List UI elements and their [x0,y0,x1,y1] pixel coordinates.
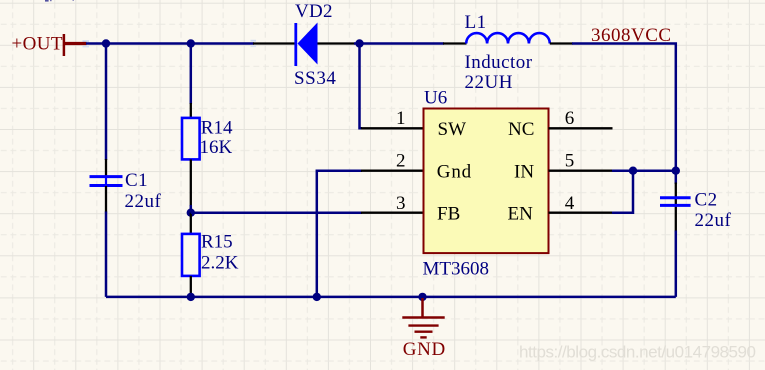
pin number 4 [565,193,575,214]
node junction left rail / top wire [102,39,110,47]
wire: R14 bottom pin [190,159,192,206]
pin number 1 [396,108,406,129]
node junction EN/IN [629,167,637,175]
wire: diode left pin [253,42,295,44]
wire: pin 2 Gnd [361,170,423,172]
node junction IN/right rail [672,167,680,175]
wire: C2 top pin [675,183,677,232]
pin name Gnd [437,161,472,182]
svg-text:16K: 16K [200,137,233,158]
wire: R14 top pin [190,103,192,118]
pin name IN [514,161,534,182]
svg-text:22uf: 22uf [125,191,162,212]
wire: C1 bottom pin [105,186,107,213]
resistor R15 2.2K [182,232,239,276]
svg-text:2: 2 [396,151,406,172]
wire: C1 top pin [105,159,107,176]
node junction Gnd / bottom rail [313,293,321,301]
node junction at SW column on top wire [355,39,363,47]
svg-text:C2: C2 [695,190,718,211]
svg-text:L1: L1 [465,12,487,33]
wire: bottom rail [106,296,676,299]
svg-text:GND: GND [403,339,446,360]
pin name SW [438,119,467,140]
wire: FB net (pin3 to divider) [191,211,362,214]
svg-text:MT3608: MT3608 [423,259,490,280]
svg-text:R15: R15 [201,232,233,253]
svg-text:4: 4 [565,193,575,214]
wire: pin 3 FB [361,212,423,214]
svg-text:SS34: SS34 [294,68,337,89]
pin number 6 [565,108,575,129]
wire: R15 top pin [190,213,192,234]
svg-text:5: 5 [565,151,575,172]
resistor R14 16K [182,118,233,160]
wire: diode right pin [318,42,356,44]
svg-text:SW: SW [438,119,467,140]
svg-text:FB: FB [437,204,460,225]
pin number 5 [565,151,575,172]
node junction R column / top wire [187,39,195,47]
IC U6 MT3608 body [423,88,549,280]
wire: left rail lower [105,212,108,297]
svg-text:Gnd: Gnd [437,161,472,182]
svg-text:NC: NC [508,119,534,140]
svg-text:VD2: VD2 [295,1,333,22]
svg-text:2.2K: 2.2K [201,253,239,274]
wire: IN net to right rail [612,169,676,172]
svg-text:EN: EN [508,204,534,225]
svg-text:Inductor: Inductor [465,52,533,73]
wire: diode to inductor [354,42,444,45]
wire top: port to diode [86,42,254,45]
pin number 2 [396,151,406,172]
wire: pin 5 IN [549,170,613,172]
inductor L1 22UH [465,12,550,93]
wire: inductor right pin [550,42,573,44]
svg-text:U6: U6 [424,88,447,109]
svg-text:+OUT: +OUT [12,34,63,55]
pin name FB [437,204,460,225]
capacitor C2 22uf [660,190,732,232]
pin name NC [508,119,534,140]
svg-text:3: 3 [396,193,406,214]
svg-text:1: 1 [396,108,406,129]
net label 3608VCC [591,25,672,46]
node junction FB / divider [187,209,195,217]
pin number 3 [396,193,406,214]
watermark [519,343,756,362]
diode VD2 SS34 [294,1,337,89]
wire: pin 6 NC [549,127,613,129]
svg-text:22UH: 22UH [465,72,513,93]
capacitor C1 22uf [90,170,162,212]
node junction GND / bottom rail [418,293,426,301]
svg-text:R14: R14 [201,118,233,139]
wire: pin 4 EN [549,212,613,214]
wire: left rail upper [105,44,108,161]
wire: R column upper [190,44,193,105]
svg-text:22uf: 22uf [695,210,732,231]
selection artifact dashes [83,40,257,48]
pin name EN [508,204,534,225]
wire: EN net up to IN [612,171,633,213]
svg-text:6: 6 [565,108,575,129]
ground GND symbol [402,298,445,360]
svg-text:https://blog.csdn.net/u0147985: https://blog.csdn.net/u014798590 [519,343,756,362]
wire: top right to right rail [572,44,676,185]
wire: pin 1 SW [361,127,423,129]
node junction R15 / bottom rail [187,293,195,301]
svg-text:IN: IN [514,161,534,182]
wire: Gnd net vertical [317,171,362,297]
wire: right rail lower [675,231,678,297]
wire: R column mid [190,205,193,214]
wire: R15 bottom pin [190,276,192,294]
wire: SW net vertical [360,44,363,129]
svg-text:C1: C1 [125,170,148,191]
cut-off text artifact top-left [45,0,74,2]
wire: inductor left pin [443,42,467,44]
port +OUT [12,34,87,56]
